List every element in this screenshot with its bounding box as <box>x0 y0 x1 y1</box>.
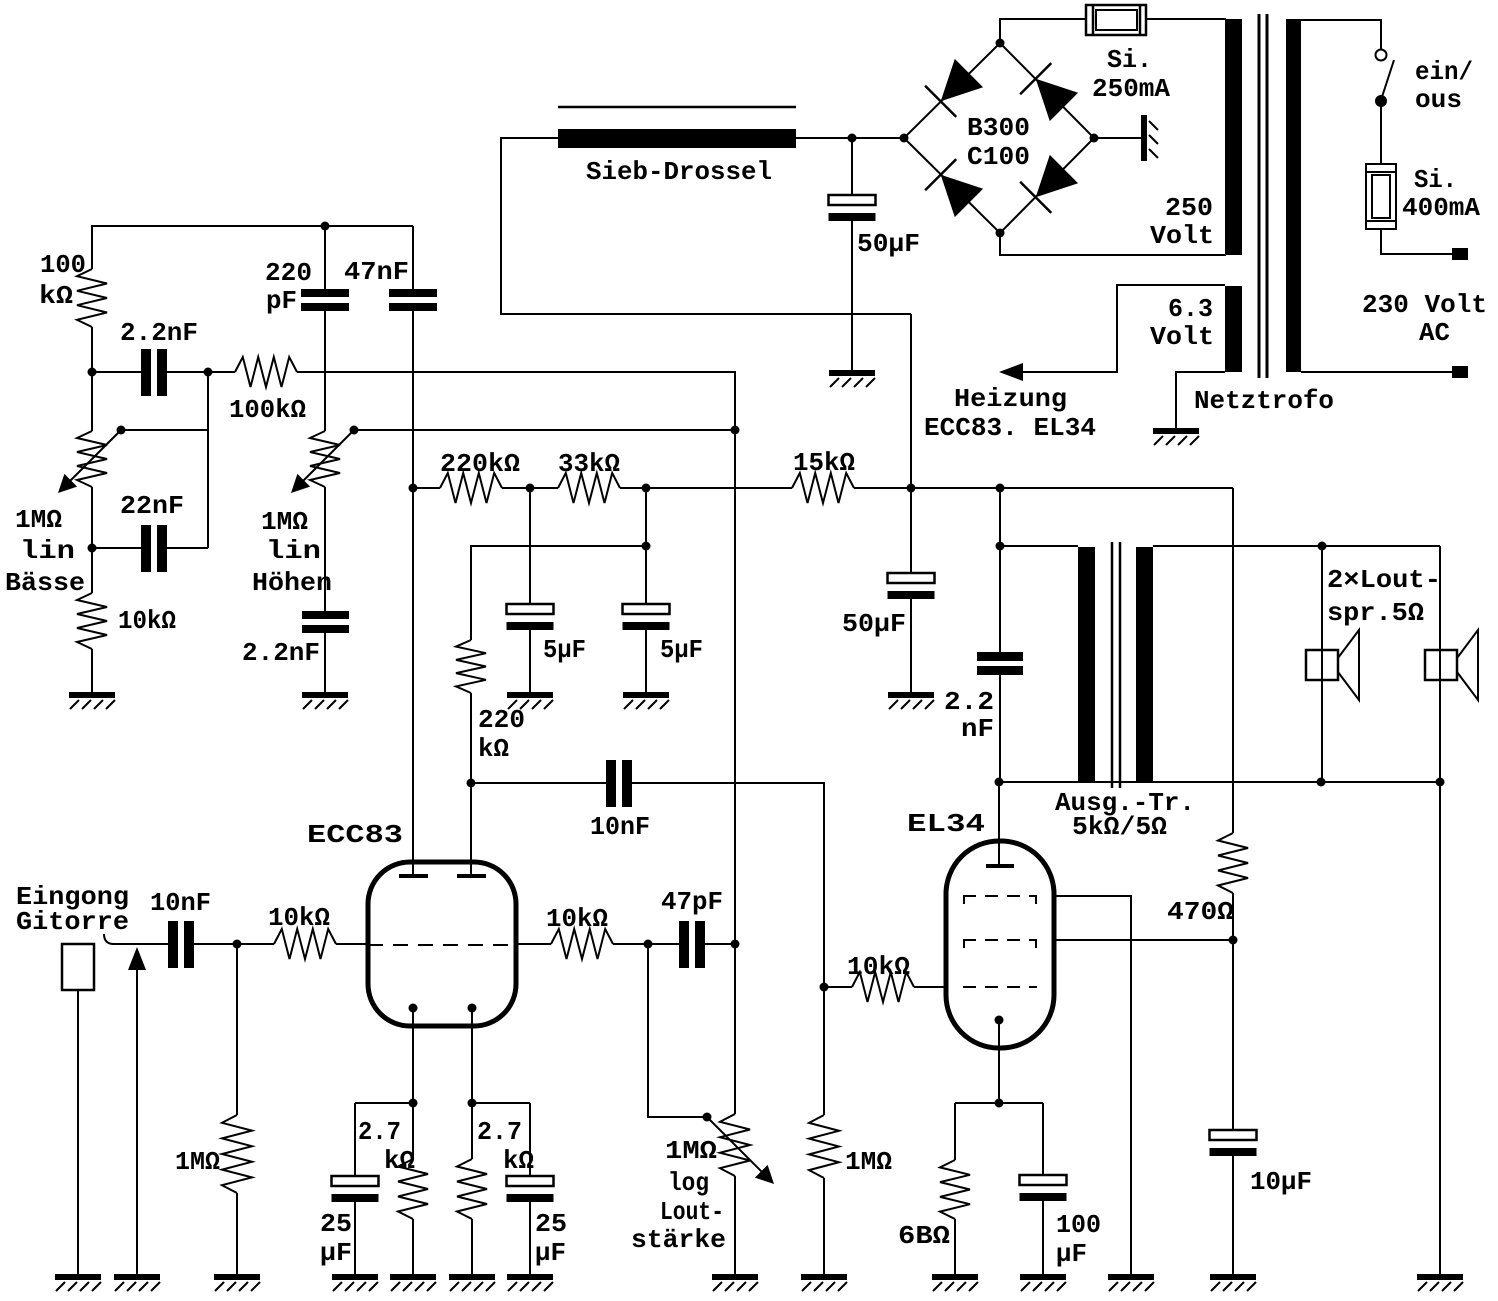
ground C15 <box>888 692 934 709</box>
svg-text:Lout-: Lout- <box>660 1197 724 1227</box>
capacitor 50µF (C16) <box>829 195 876 221</box>
resistor 33kΩ (R5) <box>558 473 620 503</box>
resistor 1MΩ (R14) <box>809 1115 839 1178</box>
ground tone stack <box>69 692 115 709</box>
wire secondary top <box>1153 545 1440 547</box>
svg-text:5µF: 5µF <box>543 635 586 665</box>
wire 2.2nF to node <box>167 371 208 373</box>
node ECC83 plate2 <box>467 779 476 788</box>
ground arrow <box>114 1274 160 1291</box>
ground C10 <box>332 1274 378 1291</box>
node bridge top <box>996 39 1005 48</box>
capacitor 2.2nF (C17) <box>977 546 1023 782</box>
label 10nF C9 <box>150 888 211 918</box>
label 2.2nF C17 <box>944 687 994 744</box>
speaker 2 <box>1425 546 1478 782</box>
wire x911 to rail <box>910 314 912 488</box>
ground R10 <box>390 1274 436 1291</box>
capacitor 5µF (C7) <box>623 604 670 630</box>
svg-text:Heizung: Heizung <box>954 384 1067 414</box>
wire fuse to terminal <box>1381 229 1452 254</box>
svg-text:Höhen: Höhen <box>252 568 332 598</box>
diode D1 <box>925 59 983 117</box>
tube EL34 (V2) envelope <box>946 841 1054 1048</box>
cathode V2 <box>995 1016 1004 1104</box>
label 220pF <box>265 258 312 316</box>
switch ein/aus (S1) <box>1376 50 1395 101</box>
wire C11 gnd <box>529 1201 531 1276</box>
wire rail seg4 <box>854 487 1233 489</box>
pot 1MΩ lin Bässe (P1) <box>58 372 121 493</box>
wire x648 to wiper <box>648 944 707 1117</box>
svg-text:Volt: Volt <box>1150 322 1214 352</box>
ground bridge (rotated) <box>1141 115 1158 161</box>
ground jack <box>55 1274 101 1291</box>
node grid1 <box>233 940 242 949</box>
wire rail seg1 <box>413 487 440 489</box>
svg-text:25: 25 <box>320 1209 352 1239</box>
svg-text:pF: pF <box>266 286 297 316</box>
label F1 <box>1092 45 1170 104</box>
svg-text:10kΩ: 10kΩ <box>847 952 910 982</box>
label 1MΩ R14 <box>845 1147 892 1177</box>
wire 220pF top <box>324 226 326 290</box>
svg-text:220: 220 <box>265 258 312 288</box>
wire 220k-v top <box>471 546 646 640</box>
node volume wiper <box>703 1113 712 1122</box>
capacitor 22nF (C2) <box>141 525 167 572</box>
wire switch to fuse <box>1380 101 1382 164</box>
capacitor 2.2nF (C1) <box>141 349 167 396</box>
svg-text:lin: lin <box>266 536 321 566</box>
svg-text:10µF: 10µF <box>1250 1167 1312 1197</box>
wire 47nF top <box>412 226 414 290</box>
svg-text:stärke: stärke <box>631 1225 726 1255</box>
ground g2 line <box>1108 1274 1154 1291</box>
grid dashed V1 <box>368 944 516 946</box>
svg-text:100kΩ: 100kΩ <box>229 395 306 425</box>
label 470Ω <box>1167 897 1234 927</box>
svg-text:1MΩ: 1MΩ <box>665 1136 717 1166</box>
wire 10nF to node <box>194 943 274 945</box>
choke core line <box>558 106 796 109</box>
svg-text:µF: µF <box>320 1238 352 1268</box>
wire C15 gnd <box>910 598 912 694</box>
label 220kΩ R4 <box>440 449 520 479</box>
wire R16 to node <box>1232 893 1234 940</box>
capacitor 50µF (C15) <box>888 573 935 599</box>
arrow input <box>128 947 146 1276</box>
svg-text:5kΩ/5Ω: 5kΩ/5Ω <box>1072 812 1167 842</box>
node 100k/2.2nF <box>88 368 97 377</box>
capacitor 2.2nF (C4) <box>302 611 349 633</box>
node cathode1 <box>409 1099 418 1108</box>
wire 6.3V top tap <box>1023 285 1225 372</box>
diode D2 <box>1020 63 1078 121</box>
svg-text:2.2nF: 2.2nF <box>242 638 320 668</box>
label Ausg.-Tr. <box>1055 788 1195 842</box>
label Lautsprecher <box>1327 565 1441 628</box>
svg-text:Si.: Si. <box>1414 165 1457 195</box>
svg-text:100: 100 <box>40 250 86 280</box>
wire cathode T <box>955 1103 1043 1176</box>
label 25µF C11 <box>535 1209 567 1268</box>
label 5µF C6 <box>543 635 586 665</box>
wire 50µF-1 lead <box>851 138 853 196</box>
wire C13 gnd <box>1042 1201 1044 1276</box>
svg-text:10nF: 10nF <box>590 812 650 842</box>
svg-text:1MΩ: 1MΩ <box>15 505 62 535</box>
node plate/C17 <box>995 778 1004 787</box>
svg-text:10nF: 10nF <box>150 888 211 918</box>
wire plate2 to 10nF <box>471 782 606 784</box>
winding 6.3V (secondary) <box>1225 286 1242 372</box>
wire 33k node down <box>645 488 647 546</box>
wire primary bottom <box>1301 371 1452 373</box>
wire 5µF-2 gnd <box>645 630 647 694</box>
label 15kΩ <box>793 448 855 478</box>
wire 6.3V bottom <box>1176 372 1225 428</box>
wire rail seg3 <box>620 487 792 489</box>
trafo core lines <box>1259 14 1267 378</box>
wire Höhen wiper line <box>354 429 735 431</box>
label 220kΩ R7 <box>478 705 525 764</box>
svg-text:kΩ: kΩ <box>39 281 73 311</box>
label ein/aus <box>1415 57 1473 115</box>
wire 10nF to grid corner <box>632 783 824 987</box>
label 47nF <box>344 257 409 287</box>
wire R11 gnd <box>471 1219 473 1276</box>
svg-text:lin: lin <box>20 536 75 566</box>
resistor 1MΩ (R9, vertical) <box>222 1115 252 1193</box>
node Bässe wiper <box>117 426 126 435</box>
label ECC83 <box>307 820 403 850</box>
wire choke left loop <box>501 138 911 314</box>
wire cath1 T <box>355 1103 413 1177</box>
svg-text:10kΩ: 10kΩ <box>268 903 330 933</box>
node bridge right <box>1090 134 1099 143</box>
ground R15 <box>932 1274 978 1291</box>
fuse Si. 250mA (F1) <box>1086 5 1146 35</box>
wire 22nF node down <box>91 548 93 593</box>
node cathode V2 <box>995 1099 1004 1108</box>
wire right return <box>1439 782 1441 1276</box>
svg-text:22nF: 22nF <box>120 491 184 521</box>
wire bridge bottom <box>1000 233 1226 255</box>
diode D4 <box>925 159 983 217</box>
svg-text:5µF: 5µF <box>660 635 703 665</box>
node 33k/220k-v <box>642 542 651 551</box>
wire 10k to ground <box>91 649 93 694</box>
wire rail seg2 <box>502 487 558 489</box>
ground C14 <box>1210 1274 1256 1291</box>
svg-text:50µF: 50µF <box>842 609 906 639</box>
svg-text:250: 250 <box>1165 193 1213 223</box>
wire 1MΩ lead <box>236 944 238 1115</box>
wire B+ to OT primary <box>1000 488 1078 546</box>
wire g2 to ground line <box>1053 896 1131 1276</box>
svg-text:2.7: 2.7 <box>358 1117 401 1147</box>
wire jack down <box>77 990 79 1276</box>
label 5µF C7 <box>660 635 703 665</box>
svg-text:Gitorre: Gitorre <box>16 907 129 937</box>
wire bridge top to fuse <box>1000 19 1086 43</box>
node 47pF right <box>731 940 740 949</box>
label 2.7kΩ R10 <box>358 1117 415 1176</box>
label 10nF C8 <box>590 812 650 842</box>
ground 1MΩ <box>214 1274 260 1291</box>
label B300 C100 <box>967 113 1030 172</box>
svg-text:kΩ: kΩ <box>478 734 509 764</box>
svg-text:6BΩ: 6BΩ <box>898 1221 950 1251</box>
label 2.2nF C4 <box>242 638 320 668</box>
node 50µF-1 tap <box>848 134 857 143</box>
svg-text:µF: µF <box>535 1238 566 1268</box>
transformer core <box>1112 542 1120 788</box>
wire node to 2.2nF <box>92 371 141 373</box>
label Netztrofo <box>1194 386 1334 416</box>
svg-text:1MΩ: 1MΩ <box>845 1147 892 1177</box>
wire R7 to plate node <box>470 693 472 783</box>
wire g3 to 470 node <box>1053 939 1233 941</box>
resistor 220kΩ (R4) <box>440 473 502 503</box>
label 10kΩ R12 <box>546 904 608 934</box>
label F2 <box>1402 165 1480 223</box>
wire screen to 10µF <box>1232 940 1234 1131</box>
svg-text:220kΩ: 220kΩ <box>440 449 520 479</box>
wire 5µF-1 lead <box>529 488 531 605</box>
node OT feed <box>996 542 1005 551</box>
resistor 10kΩ (R3, vertical) <box>77 593 107 649</box>
grid1 dashes V2 <box>963 940 1037 948</box>
speaker 1 <box>1306 546 1359 782</box>
svg-text:220: 220 <box>478 705 525 735</box>
ground trafo <box>1153 428 1199 445</box>
capacitor 10nF (C9, input) <box>168 921 194 968</box>
label 10kΩ R8 <box>268 903 330 933</box>
ground R11 <box>449 1274 495 1291</box>
wire cath2 T <box>472 1103 530 1177</box>
node screen <box>1229 936 1238 945</box>
wire rail corner down 470Ω <box>1232 488 1234 833</box>
resistor 470Ω (R16) <box>1218 833 1248 893</box>
wire 50µF-2 lead <box>910 488 912 574</box>
svg-text:6.3: 6.3 <box>1168 294 1213 324</box>
resistor 15kΩ (R6) <box>792 473 854 503</box>
capacitor 10nF (C8) <box>606 760 632 807</box>
label 6.3 Volt <box>1150 294 1214 352</box>
node top-rail/220pF <box>321 222 330 231</box>
node EL34 grid <box>820 983 829 992</box>
label Heizung <box>924 384 1096 443</box>
resistor 100kΩ (R2, horizontal) <box>235 357 297 387</box>
wire plate line <box>999 781 1440 783</box>
svg-text:50µF: 50µF <box>857 229 920 259</box>
wire C10 gnd <box>354 1201 356 1276</box>
resistor 220kΩ (R7, vertical) <box>456 640 486 693</box>
label 2.7kΩ R11 <box>477 1117 534 1176</box>
svg-text:ein/: ein/ <box>1415 57 1473 87</box>
wire 5µF-2 lead <box>645 546 647 605</box>
svg-text:400mA: 400mA <box>1402 193 1480 223</box>
wire 1MΩ-2 lead <box>823 987 825 1115</box>
ground C13 <box>1020 1274 1066 1291</box>
wire C14 gnd <box>1232 1156 1234 1276</box>
svg-text:2.2: 2.2 <box>944 687 994 717</box>
label EL34 <box>907 809 985 839</box>
node 2.2nF/100k h <box>204 368 213 377</box>
resistor 2.7kΩ (R10) <box>398 1103 428 1219</box>
svg-text:ECC83. EL34: ECC83. EL34 <box>924 413 1096 443</box>
ground R14 <box>801 1274 847 1291</box>
grid3 dashes V2 <box>963 986 1037 988</box>
svg-text:AC: AC <box>1419 318 1450 348</box>
svg-text:230 Volt: 230 Volt <box>1362 290 1487 320</box>
wire R10 gnd <box>412 1219 414 1276</box>
label 230 Volt AC <box>1362 290 1487 348</box>
wire 22nF right <box>167 547 208 549</box>
svg-text:µF: µF <box>1056 1239 1087 1269</box>
anode bar V1b <box>457 874 486 878</box>
pot 1MΩ lin Höhen (P2) <box>291 430 354 493</box>
wire 5µF-1 gnd <box>529 630 531 694</box>
capacitor 220pF (C3) <box>301 289 349 311</box>
svg-text:kΩ: kΩ <box>503 1146 534 1176</box>
wire 2.2nF2 to ground <box>324 633 326 694</box>
wire R13 to tube <box>914 986 947 988</box>
label 250 Volt <box>1150 193 1214 251</box>
wire C16 gnd <box>851 220 853 372</box>
resistor 10kΩ (R12) <box>551 929 613 959</box>
ground C16 <box>829 370 875 387</box>
fuse Si. 400mA (F2) <box>1366 164 1396 229</box>
capacitor 10µF (C14) <box>1210 1130 1257 1156</box>
ground C11 <box>507 1274 553 1291</box>
terminal N <box>1452 366 1468 378</box>
wire plate2 pin <box>470 783 472 874</box>
svg-text:2.2nF: 2.2nF <box>120 318 198 348</box>
svg-text:Bässe: Bässe <box>5 568 85 598</box>
capacitor 25µF (C10) <box>332 1176 379 1202</box>
resistor 2.7kΩ (R11) <box>457 1103 487 1219</box>
resistor 10kΩ (R13) <box>852 972 914 1002</box>
svg-text:nF: nF <box>961 714 994 744</box>
wire node to 100kΩ h <box>208 371 235 373</box>
wire 100k to node <box>91 327 93 373</box>
svg-text:470Ω: 470Ω <box>1167 897 1234 927</box>
node rail/OT <box>996 484 1005 493</box>
wire fuse to winding <box>1146 18 1226 20</box>
wire Bässe wiper <box>121 429 208 431</box>
wire R15 gnd <box>954 1219 956 1276</box>
diode D3 <box>1020 155 1078 213</box>
wire primary top <box>1301 20 1381 49</box>
ground 5µF-2 <box>623 692 669 709</box>
anode bar V1a <box>399 874 428 878</box>
node cathode2 <box>468 1099 477 1108</box>
capacitor 100µF (C13) <box>1020 1175 1067 1201</box>
node speaker1 bottom <box>1317 778 1326 787</box>
transformer Ausg.-Tr. primary <box>1078 547 1095 783</box>
wire pot to 2.2nF2 <box>324 487 326 612</box>
svg-text:47pF: 47pF <box>661 887 723 917</box>
label 2.2nF <box>120 318 198 348</box>
svg-text:Si.: Si. <box>1107 45 1152 75</box>
node rail/50µF-2 <box>907 484 916 493</box>
label 47pF <box>661 887 723 917</box>
anode pin V2 <box>998 782 1000 864</box>
node bridge left <box>900 134 909 143</box>
node treble-top junction <box>731 426 740 435</box>
arrow Heizung <box>999 363 1023 381</box>
wire input hook <box>104 934 168 944</box>
svg-text:ECC83: ECC83 <box>307 820 403 850</box>
label Eingang <box>16 882 129 937</box>
label 100µF <box>1056 1210 1101 1269</box>
ground Höhen <box>302 692 348 709</box>
label 10kΩ R13 <box>847 952 910 982</box>
pot 1MΩ log Lautstärke (P3) <box>707 430 774 1184</box>
node speaker1 top <box>1318 542 1327 551</box>
label 100kΩ R2 <box>229 395 306 425</box>
cathode pin V1a <box>409 1004 418 1104</box>
wire pot gnd <box>734 1176 736 1276</box>
wire R14 gnd <box>823 1178 825 1276</box>
grid2 dashes V2 <box>963 896 1037 904</box>
svg-text:15kΩ: 15kΩ <box>793 448 855 478</box>
wire 1MΩ gnd <box>236 1193 238 1276</box>
wire pot to 22nF <box>92 487 141 548</box>
label 10µF <box>1250 1167 1312 1197</box>
svg-text:EL34: EL34 <box>907 809 985 839</box>
wire top rail <box>92 225 413 227</box>
bridge B300 C100 diamond <box>904 43 1094 233</box>
wire 47nF to plate <box>412 311 414 874</box>
node 22nF left <box>88 544 97 553</box>
resistor 100kΩ (R1, vertical) <box>77 269 107 327</box>
svg-text:ous: ous <box>1415 85 1462 115</box>
label 22nF <box>120 491 184 521</box>
node Höhen wiper <box>350 426 359 435</box>
winding primary 230V <box>1286 19 1301 372</box>
label P3 <box>631 1136 726 1255</box>
capacitor 25µF (C11) <box>507 1176 554 1202</box>
wire x208 vertical <box>207 372 209 548</box>
label Sieb-Drossel <box>586 157 772 187</box>
capacitor 5µF (C6) <box>507 604 554 630</box>
svg-text:250mA: 250mA <box>1092 74 1170 104</box>
label 50µF C16 <box>857 229 920 259</box>
svg-text:10kΩ: 10kΩ <box>118 606 176 636</box>
label 50µF C15 <box>842 609 906 639</box>
svg-text:33kΩ: 33kΩ <box>558 449 620 479</box>
ground P3 <box>712 1274 758 1291</box>
node plate/B+ rail <box>409 484 418 493</box>
svg-text:Volt: Volt <box>1150 221 1214 251</box>
node right corner <box>1436 778 1445 787</box>
input jack <box>62 944 94 990</box>
svg-text:log: log <box>668 1168 709 1198</box>
svg-text:25: 25 <box>535 1209 567 1239</box>
svg-text:10kΩ: 10kΩ <box>546 904 608 934</box>
wire 220pF to pot <box>324 311 326 431</box>
label 10kΩ R3 <box>118 606 176 636</box>
label P2 <box>252 507 332 598</box>
node 47pF left <box>644 940 653 949</box>
node switch <box>1375 95 1387 107</box>
svg-text:2.7: 2.7 <box>477 1117 522 1147</box>
node rail/220k-vert <box>642 484 651 493</box>
